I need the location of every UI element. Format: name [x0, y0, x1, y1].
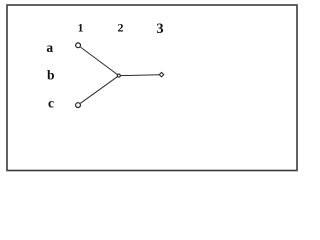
svg-text:3: 3 — [156, 21, 163, 37]
svg-text:1: 1 — [78, 21, 84, 35]
node 1a — [76, 43, 81, 48]
svg-text:b: b — [47, 68, 55, 83]
svg-text:2: 2 — [118, 21, 124, 35]
wire node2b to node3b — [121, 74, 160, 77]
node 3b — [159, 72, 163, 76]
wire node1a to node2b — [81, 47, 118, 74]
node 2b (junction) — [117, 74, 120, 77]
wire node1c to node2b — [80, 77, 117, 104]
svg-text:a: a — [46, 40, 53, 55]
border frame — [7, 5, 297, 171]
node 1c — [76, 103, 81, 108]
svg-text:c: c — [48, 96, 54, 111]
